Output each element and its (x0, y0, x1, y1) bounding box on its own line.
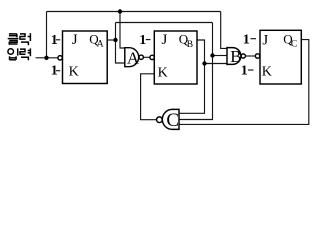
wire rail2 branch to gate B (213, 55, 228, 57)
svg-text:K: K (69, 65, 79, 80)
glyph 럭 (20, 33, 30, 45)
svg-text:A: A (127, 49, 140, 68)
svg-text:1: 1 (51, 33, 58, 48)
NAND gate B bubble (241, 54, 245, 58)
glyph 력 (20, 48, 30, 60)
svg-text:J: J (262, 32, 268, 48)
pin dash FFB J (146, 39, 151, 41)
NAND gate A bubble (139, 55, 143, 59)
NAND gate C body (mirrored, output left) (162, 109, 179, 129)
svg-text:B: B (230, 47, 241, 66)
wire QB branch to gate B (205, 63, 228, 65)
svg-text:A: A (97, 39, 104, 49)
wire rail2 drop down to gate C (179, 23, 213, 120)
glyph 입 (8, 48, 18, 59)
wire rail1 drop to gate A (120, 12, 125, 49)
wire top rail 1 (clock) (47, 11, 221, 13)
wire QB out and down to gate C (179, 40, 205, 113)
clock bubble FF B (150, 55, 154, 59)
junction dot QA (113, 38, 117, 42)
clock bubble FF C (255, 54, 259, 58)
svg-text:K: K (262, 64, 272, 79)
flip-flop U2 box (FF B) (154, 31, 197, 84)
svg-text:J: J (162, 32, 168, 48)
wire QC out down and along bottom to gate C (179, 40, 309, 125)
svg-text:C: C (291, 39, 297, 49)
NAND gate B body (227, 48, 241, 65)
korean text 클럭 입력 (clock input) drawn as strokes (8, 33, 31, 60)
wire QA drop to gate A lower input (116, 40, 125, 63)
wire QA riser to rail 2 (115, 23, 117, 41)
pin dash FFC K (248, 69, 254, 71)
svg-text:J: J (72, 32, 78, 48)
svg-text:1: 1 (51, 64, 58, 79)
svg-text:1: 1 (139, 33, 146, 48)
wire QA out (107, 39, 115, 41)
svg-text:C: C (166, 110, 179, 131)
pin dash FFC J (251, 38, 257, 40)
svg-text:1: 1 (243, 32, 250, 47)
svg-text:K: K (158, 65, 168, 80)
junction dot clock (44, 56, 48, 60)
flip-flop U1 box (FF A) (63, 31, 108, 84)
wire gate C output to FFB K input (141, 74, 157, 120)
svg-text:1: 1 (241, 63, 248, 78)
svg-text:B: B (187, 40, 193, 50)
NAND gate C bubble (157, 117, 163, 123)
wire clock input horizontal (36, 57, 59, 59)
pin dash FFA K (56, 70, 60, 72)
junction dot rail1 (118, 9, 122, 13)
wire gate A output to FFB clock (144, 56, 150, 58)
wire rail1 drop to gate B (221, 12, 227, 49)
junction dot QB/gateB (202, 61, 206, 65)
flip-flop U3 box (FF C) (260, 30, 301, 84)
glyph 클 (8, 34, 19, 44)
NAND gate A body (125, 48, 139, 67)
pin dash FFA J (56, 39, 60, 41)
junction dot rail2/gateB (210, 53, 214, 57)
clock bubble FF A (58, 56, 62, 60)
wire clock riser (46, 12, 48, 58)
wire gate B output to FFC clock (246, 55, 256, 57)
wire top rail 2 (QA) (116, 22, 213, 24)
